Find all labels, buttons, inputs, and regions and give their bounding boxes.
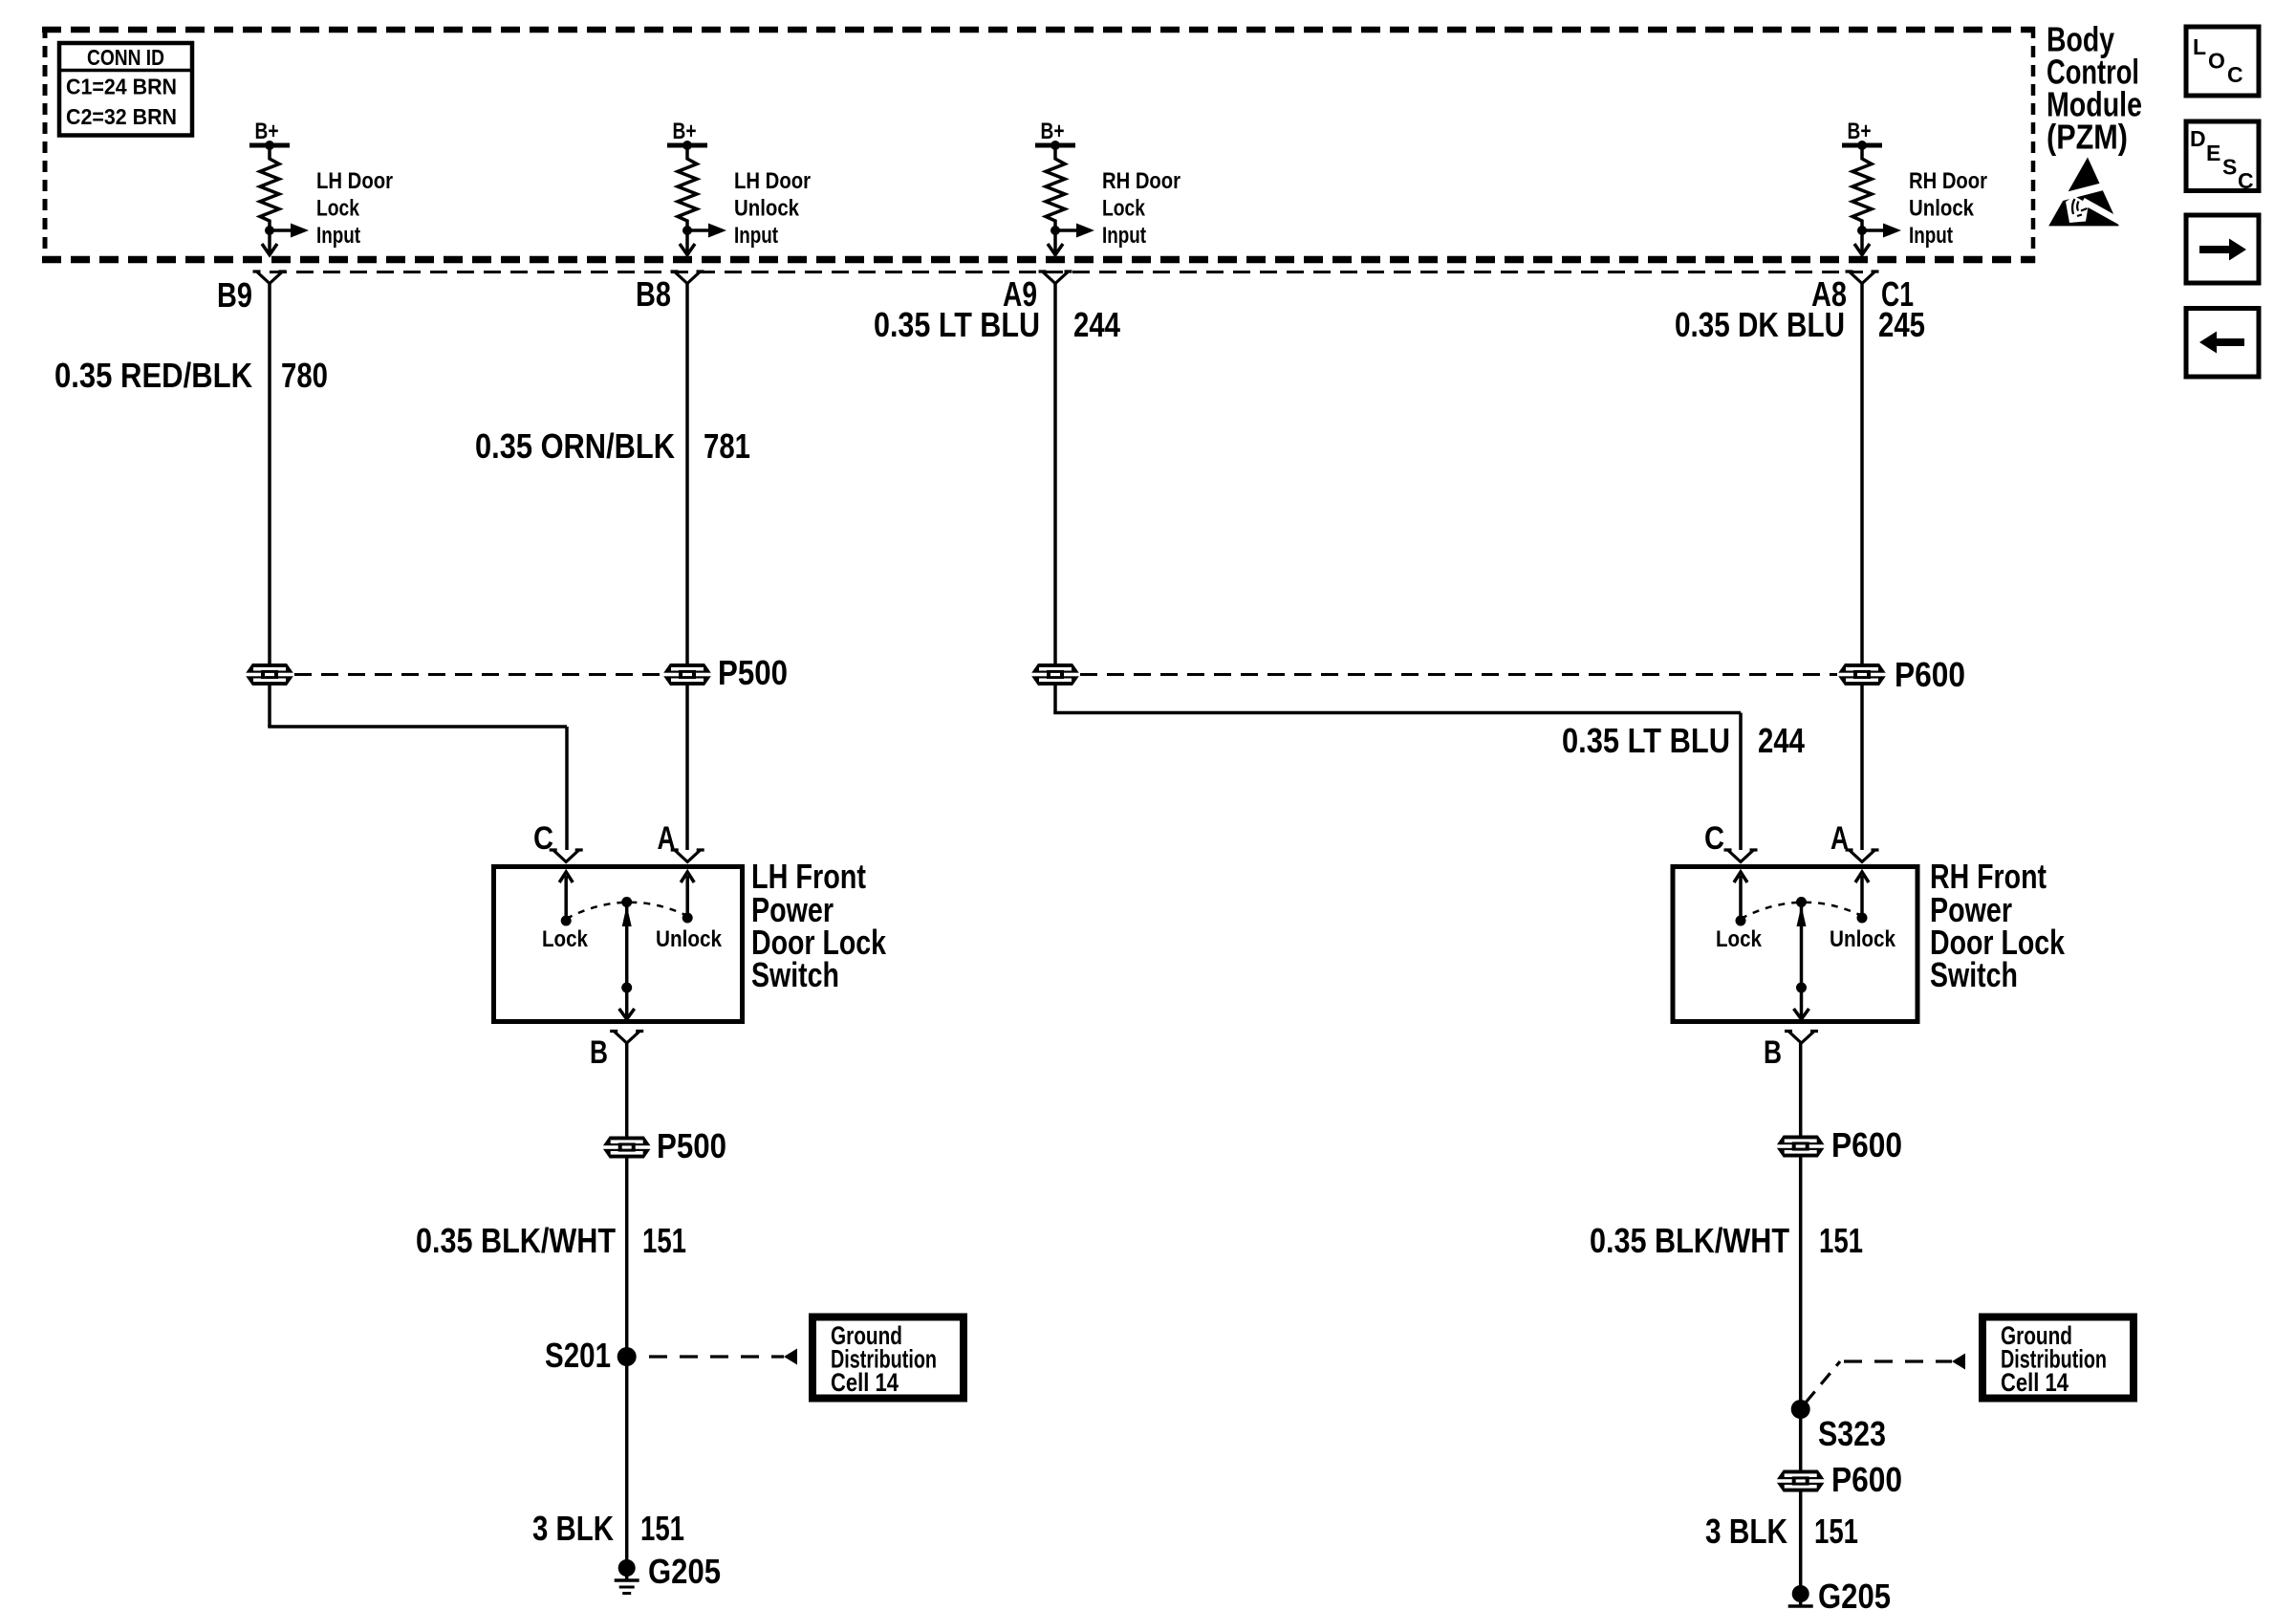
svg-text:P600: P600 [1831,1125,1902,1164]
svg-text:E: E [2206,141,2220,165]
svg-text:B+: B+ [1848,119,1872,144]
svg-text:P600: P600 [1831,1460,1902,1499]
svg-text:151: 151 [640,1509,684,1548]
svg-text:B9: B9 [217,275,252,315]
svg-text:0.35 RED/BLK: 0.35 RED/BLK [54,356,252,395]
svg-text:P500: P500 [657,1126,726,1165]
svg-text:CONN ID: CONN ID [87,45,164,70]
svg-text:Lock: Lock [542,926,589,952]
svg-text:Switch: Switch [1930,955,2018,994]
svg-text:RH Door: RH Door [1102,168,1180,194]
svg-text:B+: B+ [673,119,697,144]
svg-text:C: C [533,820,553,857]
svg-text:Switch: Switch [751,955,839,994]
svg-text:Lock: Lock [316,196,360,222]
svg-text:B8: B8 [636,274,671,314]
svg-text:Input: Input [316,223,360,249]
svg-text:0.35 BLK/WHT: 0.35 BLK/WHT [1590,1221,1789,1260]
svg-text:151: 151 [1814,1512,1858,1551]
svg-text:244: 244 [1758,721,1805,760]
svg-text:0.35 BLK/WHT: 0.35 BLK/WHT [416,1221,616,1260]
svg-text:3 BLK: 3 BLK [1705,1512,1787,1551]
svg-text:G205: G205 [1818,1577,1891,1610]
svg-text:Unlock: Unlock [1909,196,1975,222]
svg-text:0.35 LT BLU: 0.35 LT BLU [1562,721,1730,760]
svg-text:C: C [1704,820,1724,857]
svg-text:151: 151 [1819,1221,1863,1260]
svg-text:3 BLK: 3 BLK [532,1509,614,1548]
svg-text:B+: B+ [1041,119,1065,144]
svg-text:(PZM): (PZM) [2047,118,2128,157]
svg-text:781: 781 [704,426,750,466]
svg-text:780: 780 [281,356,328,395]
svg-text:P600: P600 [1895,655,1965,694]
svg-text:B+: B+ [255,119,279,144]
svg-text:0.35 DK BLU: 0.35 DK BLU [1675,305,1845,344]
svg-text:245: 245 [1878,305,1925,344]
svg-text:S323: S323 [1818,1414,1886,1453]
svg-text:Lock: Lock [1716,926,1763,952]
svg-text:Unlock: Unlock [656,926,723,952]
svg-text:0.35 ORN/BLK: 0.35 ORN/BLK [475,426,675,466]
svg-text:Input: Input [1102,223,1146,249]
svg-text:Input: Input [1909,223,1953,249]
svg-text:O: O [2208,49,2225,74]
svg-text:LH Door: LH Door [734,168,811,194]
svg-text:151: 151 [642,1221,686,1260]
svg-text:B: B [590,1034,608,1071]
svg-text:D: D [2190,126,2206,151]
svg-text:Lock: Lock [1102,196,1146,222]
svg-text:RH Door: RH Door [1909,168,1987,194]
svg-text:A: A [1830,820,1849,857]
svg-text:B: B [1764,1034,1782,1071]
svg-text:P500: P500 [718,653,788,692]
svg-text:L: L [2193,34,2206,59]
svg-text:244: 244 [1073,305,1120,344]
svg-text:C2=32 BRN: C2=32 BRN [66,104,177,129]
svg-text:Input: Input [734,223,778,249]
svg-text:Unlock: Unlock [734,196,800,222]
svg-text:A: A [658,820,676,857]
svg-text:S: S [2222,155,2237,180]
svg-text:C: C [2238,168,2254,193]
svg-text:0.35 LT BLU: 0.35 LT BLU [874,305,1040,344]
svg-text:LH Door: LH Door [316,168,393,194]
svg-text:Unlock: Unlock [1830,926,1896,952]
svg-text:C: C [2227,62,2243,87]
svg-text:G205: G205 [648,1552,721,1591]
svg-text:S201: S201 [545,1336,611,1375]
svg-text:C1=24 BRN: C1=24 BRN [66,75,177,99]
